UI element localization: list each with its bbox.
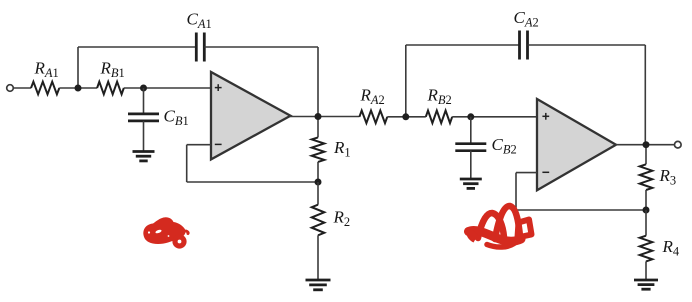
svg-text:CB1: CB1: [164, 107, 189, 129]
wire node B2 down to CB2: [470, 117, 472, 144]
wire top rail left of CA1: [78, 46, 196, 48]
resistor R3: [645, 145, 647, 165]
wire RB2 to op-amp U2 plus input: [452, 116, 537, 118]
ground below CB1: [133, 152, 155, 161]
node FB1 junction dot: [315, 179, 322, 186]
wire feedback to U1 minus input: [187, 144, 211, 146]
op-amp U2: [537, 99, 616, 190]
ground below CB2: [460, 179, 482, 188]
ground below R2: [306, 280, 331, 290]
wire CB1 to ground: [143, 121, 145, 151]
wire RA1 to RB1: [59, 87, 97, 89]
wire RB1 to op-amp U1 plus input: [124, 87, 211, 89]
ground below R4: [634, 280, 658, 289]
svg-text:R1: R1: [333, 138, 351, 160]
op-amp U1 plus pin: [215, 84, 222, 91]
output terminal: [675, 141, 682, 148]
resistor R4: [645, 210, 647, 236]
svg-text:CA1: CA1: [187, 10, 212, 32]
wire node FB1 horizontal feedback: [187, 181, 318, 183]
red scribble left: [143, 217, 188, 246]
capacitor CB1: [128, 114, 159, 121]
node A2 junction dot: [402, 113, 409, 120]
svg-text:RA1: RA1: [34, 59, 59, 81]
resistor R2: [317, 182, 319, 205]
wire top rail right of CA2: [528, 44, 646, 46]
op-amp U1 minus pin: [215, 143, 222, 145]
wire node B down to CB1: [143, 88, 145, 114]
svg-text:CA2: CA2: [514, 8, 539, 30]
svg-text:RB1: RB1: [100, 59, 125, 81]
wire top rail right of CA1: [204, 46, 318, 48]
wire feedback to U2 minus input: [516, 172, 537, 174]
capacitor CA1: [196, 33, 204, 62]
op-amp U2 plus pin: [542, 113, 549, 120]
node B junction dot: [140, 85, 147, 92]
resistor R1: [317, 117, 319, 138]
wire node A2 up to top rail: [405, 45, 407, 117]
svg-text:RB2: RB2: [427, 86, 452, 108]
wire top rail down to output node OUT1: [317, 47, 319, 117]
wire RA2 to RB2: [387, 116, 426, 118]
capacitor CA2: [520, 31, 528, 60]
wire CB2 to ground: [470, 151, 472, 179]
wire top rail left of CA2: [406, 44, 520, 46]
red scribble right: [466, 206, 532, 247]
svg-text:R4: R4: [662, 237, 680, 259]
wire top rail down to node OUT2: [644, 45, 646, 145]
wire feedback vertical stage 2: [515, 173, 517, 210]
node A junction dot: [75, 85, 82, 92]
op-amp U1: [211, 72, 291, 159]
wire U2 output to output terminal: [616, 144, 675, 146]
op-amp U2 minus pin: [542, 171, 549, 173]
node B2 junction dot: [467, 113, 474, 120]
svg-text:CB2: CB2: [492, 135, 517, 157]
wire feedback vertical: [186, 145, 188, 182]
svg-text:RA2: RA2: [360, 86, 385, 108]
resistor RA1: [31, 82, 59, 95]
node OUT1 junction dot: [315, 113, 322, 120]
svg-text:R2: R2: [333, 208, 351, 230]
svg-text:R3: R3: [659, 166, 677, 188]
wire node FB2 horizontal feedback: [516, 209, 646, 211]
resistor RA2: [359, 111, 387, 124]
wire input terminal to RA1: [13, 87, 31, 89]
resistor RB2: [426, 111, 452, 124]
wire node A up to top rail: [77, 47, 79, 88]
wire U1 output to node OUT1 and stage 2: [290, 116, 359, 118]
resistor RB1: [97, 82, 124, 95]
input terminal: [7, 85, 14, 92]
capacitor CB2: [455, 144, 486, 151]
node OUT2 junction dot: [643, 141, 650, 148]
node FB2 junction dot: [643, 207, 650, 214]
